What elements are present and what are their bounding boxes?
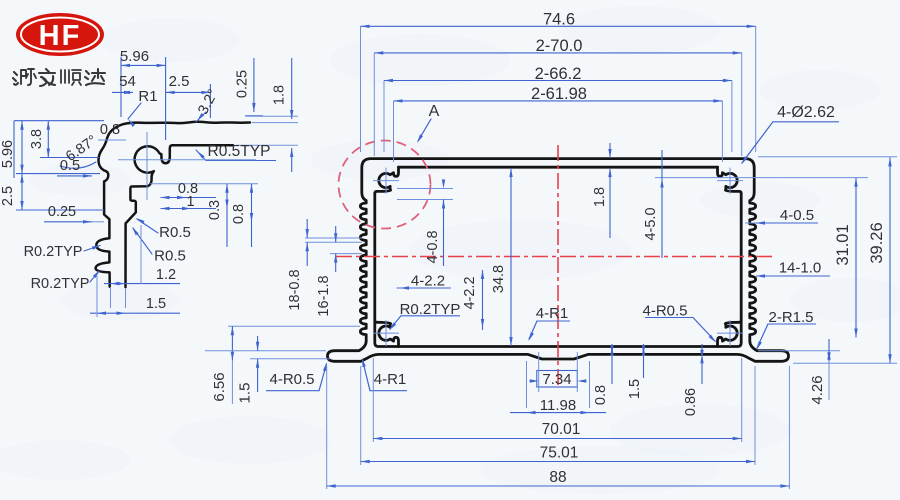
ext line top right corner (758, 156, 897, 158)
detail label R0.2TYP 2 (31, 270, 100, 292)
detail dim 1.8 right (236, 58, 298, 172)
svg-text:1.8: 1.8 (272, 85, 288, 105)
dim 6.56 (211, 326, 360, 404)
dim 4.26 (809, 339, 831, 405)
main profile inner right (558, 167, 741, 346)
ext line boss centers right (655, 177, 868, 179)
svg-text:4-0.5: 4-0.5 (780, 207, 814, 224)
svg-text:16-1.8: 16-1.8 (316, 275, 332, 316)
svg-text:11.98: 11.98 (540, 397, 576, 414)
detail dim 0.25 left (44, 204, 104, 224)
svg-text:0.8: 0.8 (593, 385, 609, 405)
svg-text:1.5: 1.5 (627, 379, 643, 399)
dim 1.5 bottom (627, 344, 645, 399)
dim 0.86 bottom (683, 344, 704, 416)
main profile inner left (375, 167, 558, 346)
dim 0.8 bottom (593, 344, 614, 405)
svg-text:54: 54 (119, 73, 136, 90)
fin ext lines left (305, 238, 362, 254)
detail labels R0.5 (132, 218, 191, 265)
svg-text:31.01: 31.01 (834, 224, 852, 265)
svg-text:0.86: 0.86 (683, 388, 699, 416)
svg-text:R1: R1 (138, 88, 157, 105)
svg-text:1.8: 1.8 (592, 187, 608, 207)
svg-text:4-2.2: 4-2.2 (462, 276, 478, 309)
detail dim 0.8 corner (98, 122, 126, 140)
svg-text:4-R1: 4-R1 (536, 305, 569, 322)
detail dim 0.3 (207, 184, 229, 247)
svg-text:2.5: 2.5 (169, 73, 190, 90)
main boss bottom-right (718, 320, 742, 346)
svg-text:4-R1: 4-R1 (374, 371, 407, 388)
svg-text:5.96: 5.96 (0, 140, 16, 168)
svg-text:2.5: 2.5 (0, 186, 16, 206)
dim 16-1.8 (316, 226, 337, 317)
logo HF oval (16, 13, 104, 56)
label 4-R1 left (362, 358, 407, 391)
dim 31.01 (834, 178, 858, 338)
detail dim 5.96 left (0, 121, 24, 174)
svg-text:0.3: 0.3 (207, 200, 223, 220)
detail dim 3.8 (29, 121, 50, 158)
detail dim 2.5 top (166, 73, 211, 118)
svg-text:6.56: 6.56 (211, 372, 228, 401)
dim 70.01 (373, 421, 741, 440)
svg-text:39.26: 39.26 (868, 222, 886, 263)
detail dim 1.2 (104, 225, 180, 308)
detail circle A (339, 141, 431, 229)
detail label R1 (128, 88, 158, 127)
svg-text:2-66.2: 2-66.2 (535, 65, 582, 83)
svg-text:R0.5: R0.5 (154, 248, 186, 265)
svg-text:4-5.0: 4-5.0 (643, 207, 659, 240)
label 2-R1.5 (757, 309, 817, 350)
svg-text:R0.2TYP: R0.2TYP (24, 244, 83, 260)
dim 2-70.0 (374, 37, 741, 55)
dim 1.5 flange (205, 336, 330, 403)
detail label R0.2TYP 1 (24, 244, 101, 260)
dim 4-0.5 (745, 207, 818, 225)
ext line flange bottom right (793, 362, 897, 364)
dim 11.98 (510, 361, 606, 414)
boss crosshair bl (373, 320, 399, 346)
dim 88 (327, 469, 790, 488)
svg-text:75.01: 75.01 (540, 445, 579, 462)
svg-text:1.2: 1.2 (156, 267, 176, 283)
centerline vertical (557, 145, 559, 388)
svg-text:0.8: 0.8 (231, 204, 247, 224)
dim 34.8 (491, 168, 513, 346)
detail label R0.5TYP (196, 143, 276, 161)
ext lines top left (361, 26, 394, 162)
dim 4-5.0 (643, 150, 664, 258)
detail dim 0.25 right (235, 58, 299, 116)
label 4-R1 mid (529, 305, 571, 341)
svg-text:4-Ø2.62: 4-Ø2.62 (777, 104, 835, 121)
label R0.2TYP main (389, 301, 460, 331)
svg-text:HF: HF (39, 20, 82, 52)
boss crosshair br (717, 320, 743, 346)
svg-text:0.25: 0.25 (48, 204, 76, 220)
svg-text:74.6: 74.6 (543, 11, 575, 29)
label 4-R0.5 mid (642, 303, 716, 343)
dim 1.8 wall (592, 143, 612, 238)
svg-text:4-2.2: 4-2.2 (411, 273, 445, 290)
detail inner contour (126, 145, 234, 287)
svg-text:R0.5: R0.5 (159, 224, 191, 241)
label A with leader (417, 103, 440, 143)
svg-text:4.26: 4.26 (809, 375, 826, 404)
ext lines bottom (327, 358, 790, 489)
svg-text:0.5: 0.5 (60, 158, 80, 174)
main boss bottom-left (375, 320, 399, 346)
detail dim 54 (112, 73, 136, 94)
detail boss crosshair (118, 132, 256, 200)
svg-text:34.8: 34.8 (491, 265, 507, 293)
dim 7.34 box (530, 352, 587, 392)
detail inner level line (150, 181, 258, 210)
svg-text:1.5: 1.5 (237, 383, 254, 404)
ext lines top right (722, 26, 755, 162)
svg-text:4-0.8: 4-0.8 (425, 230, 441, 263)
detail left level lines (14, 121, 104, 210)
svg-text:5.96: 5.96 (120, 48, 149, 65)
dim 39.26 (868, 157, 892, 363)
detail dim 5.96 top (120, 48, 166, 140)
dim 4-0.8 (397, 180, 453, 267)
dim 75.01 (361, 445, 755, 464)
centerline horizontal (336, 256, 776, 258)
label 4-R0.5 left (266, 362, 327, 391)
svg-text:1.5: 1.5 (146, 296, 166, 312)
detail label 6.87deg (60, 132, 100, 168)
svg-text:2-70.0: 2-70.0 (536, 37, 583, 55)
main profile outer left (328, 159, 559, 362)
svg-text:A: A (429, 103, 440, 120)
company name text (13, 69, 105, 86)
main boss top-right (718, 167, 742, 193)
svg-text:70.01: 70.01 (542, 421, 581, 438)
detail dim 0.8 vert (231, 184, 253, 247)
svg-text:18-0.8: 18-0.8 (287, 269, 303, 310)
detail dim 0.5 (57, 158, 92, 178)
svg-text:0.25: 0.25 (235, 70, 251, 98)
svg-text:88: 88 (549, 469, 566, 486)
main boss top-left (375, 167, 399, 193)
ext line flange mid right (758, 350, 840, 352)
svg-text:R0.5TYP: R0.5TYP (208, 143, 271, 160)
svg-text:1: 1 (186, 194, 194, 210)
dim 14-1.0 (756, 260, 830, 278)
dim 2-61.98 (394, 85, 723, 103)
svg-text:2-61.98: 2-61.98 (531, 85, 587, 103)
boss crosshair tr (717, 168, 743, 194)
dim 4-2.2 horiz (397, 273, 451, 290)
boss crosshair tl (373, 168, 399, 194)
detail dim 2.5 left (0, 174, 44, 210)
detail outer contour (96, 122, 250, 287)
label 4-dia2.62 (741, 104, 839, 165)
detail label 3.2deg (195, 87, 221, 122)
svg-text:3.8: 3.8 (29, 129, 45, 149)
svg-text:0.8: 0.8 (100, 122, 120, 138)
svg-text:R0.2TYP: R0.2TYP (31, 276, 90, 292)
svg-text:14-1.0: 14-1.0 (779, 260, 822, 277)
svg-text:7.34: 7.34 (542, 371, 571, 388)
main profile outer right (558, 159, 789, 362)
dim 2-66.2 (384, 65, 732, 83)
dim 4-2.2 vert (462, 270, 484, 330)
dim 18-0.8 (287, 219, 309, 311)
svg-text:4-R0.5: 4-R0.5 (269, 371, 314, 388)
dim 74.6 (361, 11, 756, 29)
detail dim 1.5 (90, 276, 180, 317)
